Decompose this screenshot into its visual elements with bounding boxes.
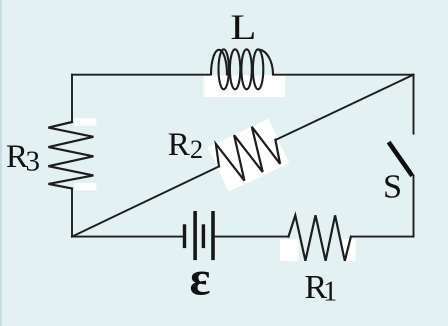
wire bottom middle segment [215, 236, 289, 238]
svg-text:R3: R3 [6, 139, 40, 178]
resistor R2 [210, 120, 286, 188]
switch S blade [389, 142, 413, 176]
wire left upper segment [71, 75, 73, 122]
wire top left segment [72, 74, 211, 76]
wire top right segment [273, 74, 414, 76]
wire diagonal lower segment [72, 166, 219, 236]
white patch R3 bottom [74, 183, 96, 191]
wire right upper segment [413, 75, 415, 134]
resistor R3 [48, 122, 93, 189]
battery tall plate 1 [193, 211, 197, 260]
wire left lower segment [71, 189, 73, 237]
white panel under resistor R2 (rotated) [208, 119, 290, 192]
svg-text:ε: ε [190, 250, 211, 305]
svg-text:S: S [383, 168, 402, 206]
resistor R1 [289, 215, 351, 260]
white patch R1 left [280, 239, 299, 261]
white panel under inductor L [204, 76, 286, 98]
white patch R3 top [74, 118, 96, 126]
battery cell plates [185, 211, 214, 260]
svg-text:L: L [230, 8, 256, 47]
battery tall plate 2 [211, 211, 215, 260]
wire bottom right segment [351, 236, 414, 238]
battery short plate 2 [202, 224, 205, 248]
inductor L [211, 49, 273, 89]
label L [230, 8, 256, 47]
wire diagonal upper segment [276, 75, 414, 140]
wire bottom left segment [72, 236, 183, 238]
battery short plate 1 [183, 224, 186, 248]
white patch R1 right [343, 239, 356, 261]
wire right lower segment [413, 176, 415, 237]
